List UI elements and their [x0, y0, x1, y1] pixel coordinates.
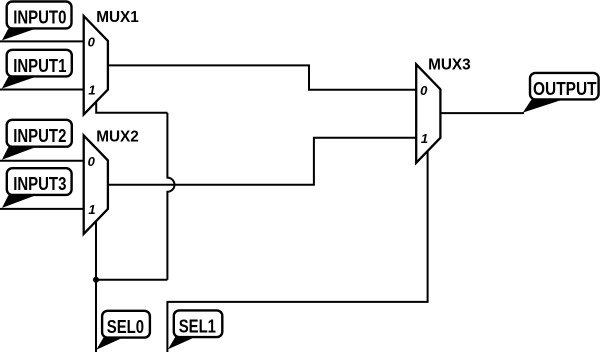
- wire net SEL1 to MUX3 select pin: [167, 151, 427, 352]
- svg-text:MUX2: MUX2: [96, 129, 139, 146]
- svg-text:0: 0: [88, 35, 96, 50]
- svg-text:SEL0: SEL0: [107, 317, 144, 337]
- node INPUT2 net flag: [2, 120, 72, 160]
- label MUX1: [96, 9, 139, 26]
- node INPUT0 net flag: [2, 2, 72, 41]
- pin label 1 of MUX1: [88, 82, 95, 97]
- node SEL1 net flag: [168, 310, 222, 349]
- svg-text:SEL1: SEL1: [179, 316, 216, 336]
- svg-text:INPUT0: INPUT0: [13, 8, 66, 28]
- wire SEL0 branch vertical with crossover hop over MUX2 output: [167, 113, 174, 280]
- label MUX2: [96, 129, 139, 146]
- wire SEL0 junction up to MUX2 select pin: [95, 222, 97, 280]
- label MUX3: [428, 57, 471, 74]
- svg-text:OUTPUT: OUTPUT: [533, 79, 597, 99]
- mux U2 body: [84, 135, 108, 234]
- wire net INPUT3 to MUX2 pin 1: [0, 208, 84, 210]
- wire net INPUT0 to MUX1 pin 0: [0, 40, 84, 42]
- svg-text:MUX1: MUX1: [96, 9, 139, 26]
- pin label 0 of MUX3: [420, 83, 428, 98]
- wire MUX1 output to MUX3 pin 0: [108, 65, 416, 89]
- pin label 1 of MUX2: [88, 202, 95, 217]
- mux U3 body: [416, 64, 440, 163]
- svg-text:0: 0: [88, 154, 96, 169]
- wire SEL0 flag stem (vertical): [95, 280, 97, 352]
- wire MUX2 output to MUX3 pin 1: [108, 138, 416, 185]
- svg-text:INPUT3: INPUT3: [13, 174, 66, 194]
- node INPUT1 net flag: [2, 50, 72, 89]
- svg-text:INPUT2: INPUT2: [13, 126, 66, 146]
- wire net INPUT1 to MUX1 pin 1: [0, 89, 84, 91]
- wire MUX3 output to OUTPUT flag: [440, 112, 524, 114]
- junction SEL0 node: [93, 277, 99, 283]
- svg-text:INPUT1: INPUT1: [13, 56, 66, 76]
- svg-text:1: 1: [88, 202, 95, 217]
- svg-text:1: 1: [88, 82, 95, 97]
- node SEL0 net flag: [96, 311, 150, 350]
- mux U1 body: [84, 16, 108, 115]
- svg-text:MUX3: MUX3: [428, 57, 471, 74]
- svg-text:0: 0: [420, 83, 428, 98]
- pin label 1 of MUX3: [421, 131, 428, 146]
- svg-text:1: 1: [421, 131, 428, 146]
- node INPUT3 net flag: [2, 168, 72, 208]
- pin label 0 of MUX1: [88, 35, 96, 50]
- pin label 0 of MUX2: [88, 154, 96, 169]
- wire SEL0 junction horizontal branch: [96, 279, 167, 281]
- wire MUX1 select pin dogleg: [96, 102, 167, 113]
- node OUTPUT net flag: [523, 73, 599, 113]
- wire net INPUT2 to MUX2 pin 0: [0, 160, 84, 162]
